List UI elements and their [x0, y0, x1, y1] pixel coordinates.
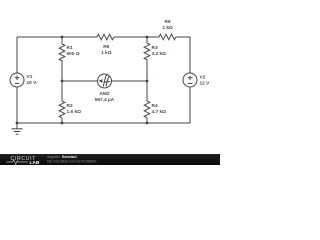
svg-text:500 Ω: 500 Ω	[67, 51, 80, 57]
svg-text:1.6 kΩ: 1.6 kΩ	[67, 109, 82, 115]
wire top rail between R5 and node B	[114, 36, 147, 38]
svg-text:12 V: 12 V	[200, 81, 211, 87]
svg-text:R4: R4	[152, 103, 158, 109]
wire middle rail right	[112, 80, 148, 82]
svg-text:R6: R6	[165, 19, 171, 25]
resistor R6	[159, 19, 176, 40]
wire top rail left segment	[17, 36, 62, 38]
svg-text:1 kΩ: 1 kΩ	[162, 25, 173, 31]
wire bottom rail right segment	[147, 122, 190, 124]
wire V1 bottom lead	[16, 87, 18, 123]
wire V2 bottom lead	[189, 87, 191, 123]
voltage source V2	[183, 73, 210, 87]
resistor R1	[59, 37, 80, 81]
node middle-left junction	[61, 80, 64, 83]
svg-text:http://circuitlab.com/c/pr7dv9: http://circuitlab.com/c/pr7dv99866a	[47, 160, 97, 164]
svg-text:R1: R1	[67, 45, 73, 51]
svg-text:V1: V1	[27, 74, 33, 80]
node top-left junction	[61, 36, 64, 39]
footer bar	[0, 154, 220, 165]
svg-text:R3: R3	[152, 45, 158, 51]
svg-text:1 kΩ: 1 kΩ	[101, 50, 112, 56]
node bottom-middle junction	[61, 122, 64, 125]
ammeter AM2	[95, 74, 115, 103]
wire middle rail left	[62, 80, 98, 82]
node middle-right junction	[146, 80, 149, 83]
resistor R5	[97, 34, 114, 56]
CircuitLab logo	[7, 156, 40, 166]
resistor R4	[144, 81, 166, 123]
wire bottom rail middle segment	[62, 122, 147, 124]
svg-text:V2: V2	[200, 75, 206, 81]
svg-text:mcgrann : Exercise1: mcgrann : Exercise1	[47, 155, 77, 159]
ground	[12, 123, 23, 134]
svg-text:LAB: LAB	[30, 160, 40, 165]
svg-text:R2: R2	[67, 103, 73, 109]
svg-text:AM2: AM2	[99, 91, 109, 97]
wire top rail middle segment	[62, 36, 97, 38]
node bottom-right junction	[146, 122, 149, 125]
node bottom-left junction	[16, 122, 19, 125]
wire R6 to right corner	[176, 36, 190, 38]
node top-right junction	[146, 36, 149, 39]
wire V1 top lead	[16, 37, 18, 73]
resistor R3	[144, 37, 166, 81]
resistor R2	[59, 81, 81, 123]
svg-text:R5: R5	[103, 44, 109, 50]
wire bottom rail left segment	[17, 122, 62, 124]
svg-text:3.2 kΩ: 3.2 kΩ	[152, 51, 167, 57]
svg-text:4.7 kΩ: 4.7 kΩ	[152, 109, 167, 115]
svg-text:10 V: 10 V	[27, 80, 38, 86]
voltage source V1	[10, 73, 37, 87]
svg-text:597.4 µA: 597.4 µA	[95, 97, 115, 103]
wire top rail node B to R6	[147, 36, 159, 38]
wire V2 top lead	[189, 37, 191, 73]
